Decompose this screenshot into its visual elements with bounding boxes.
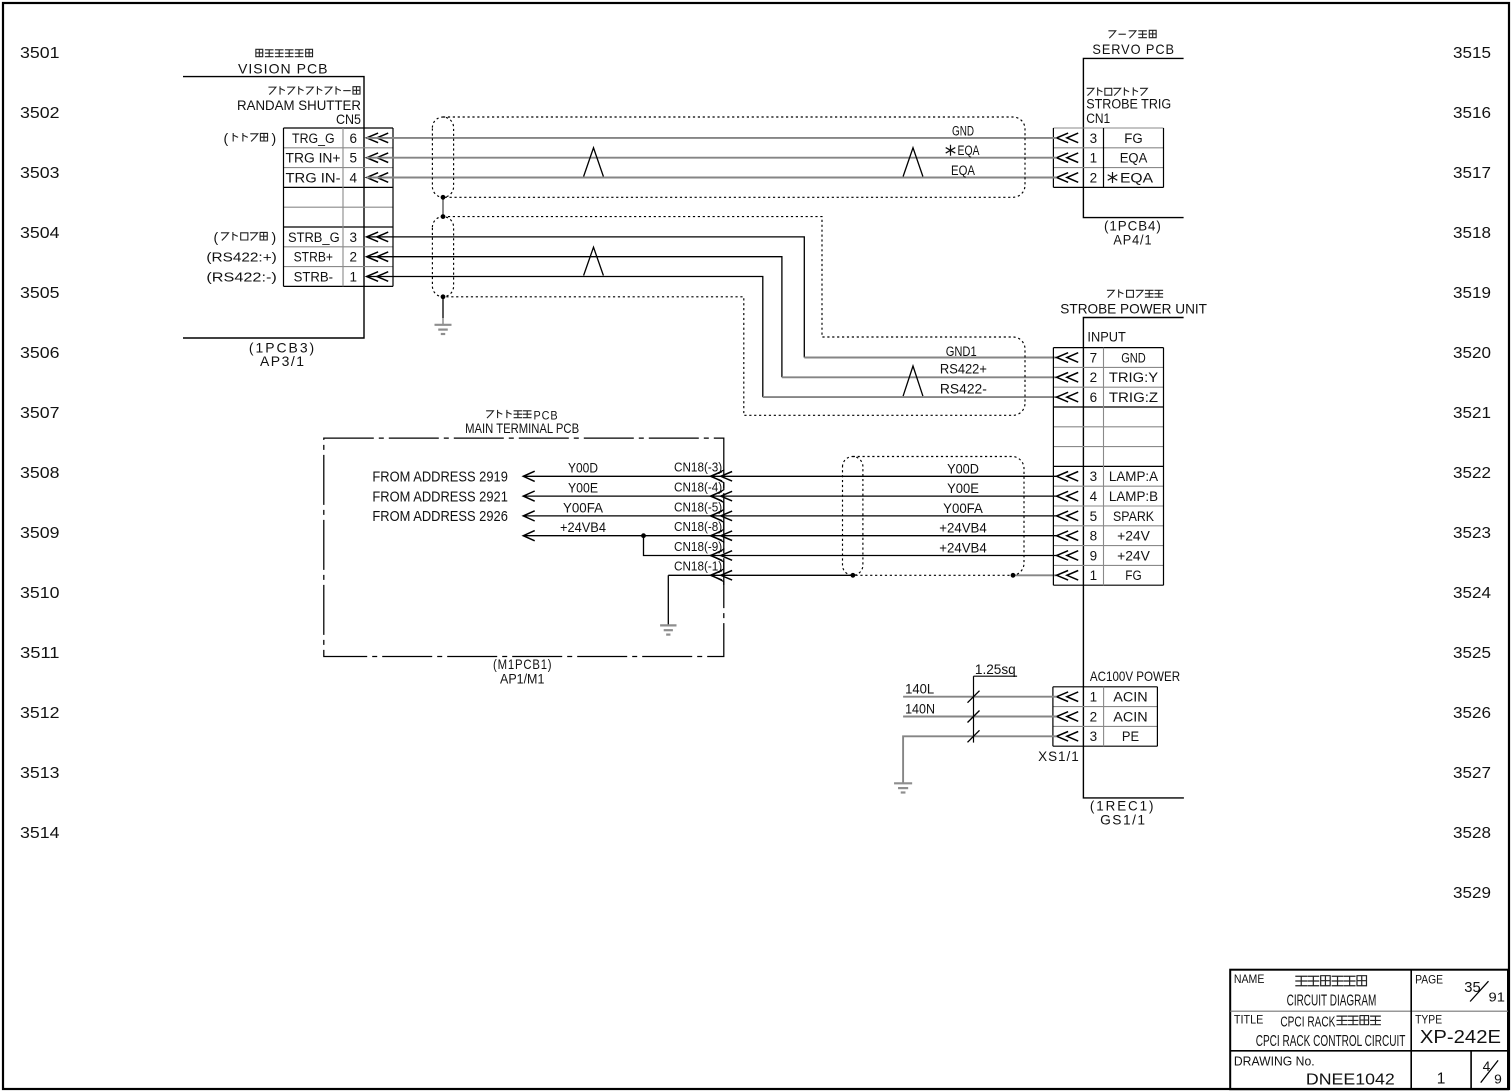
- title block label TYPE: [1415, 1013, 1442, 1027]
- svg-text:EQA: EQA: [951, 163, 975, 178]
- label (1REC1): [1090, 798, 1156, 814]
- svg-text:3509: 3509: [20, 525, 60, 542]
- label SERVO PCB: [1092, 41, 1175, 57]
- svg-text:1: 1: [349, 269, 357, 284]
- svg-text:3504: 3504: [20, 225, 60, 242]
- svg-text:3501: 3501: [20, 45, 60, 62]
- shield link wire between cable shields: [442, 197, 444, 216]
- svg-text:FG: FG: [1124, 131, 1142, 146]
- svg-text:SPARK: SPARK: [1113, 509, 1154, 524]
- svg-text:(RS422:+): (RS422:+): [206, 250, 276, 265]
- svg-text:3507: 3507: [20, 405, 60, 422]
- label CN5: [336, 111, 361, 127]
- svg-text:3522: 3522: [1453, 465, 1491, 482]
- sheet 4/9: [1481, 1059, 1502, 1087]
- title CPCI RACK CONTROL CIRCUIT: [1256, 1033, 1406, 1050]
- svg-text:+24V: +24V: [1117, 529, 1150, 544]
- label サーボ基板 (servo board): [1108, 30, 1156, 38]
- svg-text:Y00FA: Y00FA: [563, 500, 603, 515]
- svg-text:TYPE: TYPE: [1415, 1013, 1442, 1027]
- svg-text:STRB+: STRB+: [294, 250, 334, 265]
- svg-text:LAMP:A: LAMP:A: [1109, 469, 1158, 484]
- net label Y00FA (in cable): [943, 501, 983, 516]
- wire 140N (to XS1/1 pin2 ACIN): [903, 716, 1057, 718]
- svg-text:1: 1: [1090, 568, 1098, 583]
- label ストロボトリガ (strobe trigger): [1087, 87, 1148, 95]
- svg-text:STROBE POWER UNIT: STROBE POWER UNIT: [1060, 300, 1207, 316]
- svg-text:8: 8: [1090, 529, 1098, 544]
- wire STRB- / RS422- (CN5 pin1 to INPUT pin6 TRIG:Z): [367, 277, 1057, 398]
- svg-text:RS422-: RS422-: [940, 382, 987, 397]
- svg-text:CN18(-8): CN18(-8): [674, 519, 722, 534]
- svg-text:CIRCUIT DIAGRAM: CIRCUIT DIAGRAM: [1287, 993, 1377, 1010]
- svg-text:STRB-: STRB-: [294, 269, 333, 284]
- svg-text:PE: PE: [1122, 729, 1139, 744]
- title block label TITLE: [1234, 1013, 1264, 1027]
- pin label CN18(-1): [674, 559, 722, 574]
- svg-text:FROM ADDRESS 2921: FROM ADDRESS 2921: [372, 488, 508, 505]
- svg-text:3519: 3519: [1453, 285, 1491, 302]
- title block: [1230, 970, 1508, 1089]
- label (トリガ用) for trigger: [224, 130, 277, 146]
- label STROBE TRIG: [1086, 97, 1171, 112]
- svg-text:3524: 3524: [1453, 585, 1491, 602]
- svg-text:1.25sq: 1.25sq: [975, 662, 1016, 677]
- zone labels 3515-3529 (right margin): [1453, 45, 1491, 902]
- title block label PAGE: [1415, 973, 1443, 987]
- wire GND (CN5 pin6 TRG_G to CN1 pin3 FG): [367, 137, 1057, 139]
- label (1PCB3): [249, 340, 316, 356]
- net label +24VB4 (left): [560, 520, 606, 535]
- revision 1: [1437, 1071, 1446, 1088]
- svg-text:CN5: CN5: [336, 111, 361, 127]
- svg-text:3: 3: [349, 230, 357, 245]
- net label Y00D (left): [568, 461, 598, 476]
- drawing number DNEE1042: [1306, 1071, 1395, 1088]
- svg-text:+24VB4: +24VB4: [939, 541, 987, 556]
- pin label CN18(-8): [674, 519, 722, 534]
- shield drain wire to ground: [442, 297, 444, 325]
- wire FG ground stub: [667, 575, 669, 625]
- svg-text:GND1: GND1: [946, 344, 977, 359]
- label FROM ADDRESS 2921: [372, 488, 508, 505]
- svg-text:3529: 3529: [1453, 885, 1491, 902]
- svg-text:3515: 3515: [1453, 45, 1491, 62]
- shielded cable outline (trigger pair to servo): [432, 117, 1025, 197]
- ground (AC PE): [894, 783, 912, 792]
- label XS1/1: [1038, 748, 1080, 764]
- svg-text:(RS422:-): (RS422:-): [206, 269, 276, 284]
- svg-text:1: 1: [1090, 151, 1098, 166]
- connector INPUT (12-row table on STROBE POWER UNIT): [1053, 348, 1163, 586]
- svg-text:EQA: EQA: [1120, 151, 1148, 166]
- svg-text:DNEE1042: DNEE1042: [1306, 1071, 1395, 1088]
- junction dot +24VB4 branch: [641, 533, 646, 538]
- net label Y00D (in cable): [947, 461, 979, 476]
- svg-text:3521: 3521: [1453, 405, 1491, 422]
- wire STRB+ / RS422+ (CN5 pin2 to INPUT pin2 TRIG:Y): [367, 257, 1057, 378]
- svg-text:3527: 3527: [1453, 765, 1491, 782]
- svg-text:5: 5: [349, 151, 357, 166]
- svg-text:3510: 3510: [20, 585, 60, 602]
- junction dot (upper shield): [441, 195, 446, 200]
- twisted-pair symbol (EQA pair, right): [903, 148, 923, 177]
- pin label CN18(-4): [674, 480, 722, 495]
- title block label DRAWING No.: [1234, 1054, 1315, 1068]
- net label +24VB4 (in cable): [939, 541, 987, 556]
- svg-text:+24V: +24V: [1117, 548, 1150, 563]
- page number 35/91: [1464, 980, 1505, 1005]
- ground (cable shield): [435, 325, 452, 334]
- svg-text:3505: 3505: [20, 285, 60, 302]
- svg-text:9: 9: [1494, 1073, 1502, 1087]
- svg-text:3520: 3520: [1453, 345, 1491, 362]
- net label 140L: [905, 682, 935, 697]
- svg-text:2: 2: [1090, 170, 1098, 185]
- svg-text:Y00FA: Y00FA: [943, 501, 983, 516]
- net label GND: [952, 123, 974, 138]
- svg-text:FROM ADDRESS 2926: FROM ADDRESS 2926: [372, 508, 508, 525]
- label MAIN TERMINAL PCB: [465, 420, 579, 436]
- svg-text:CN18(-5): CN18(-5): [674, 499, 722, 514]
- svg-text:FG: FG: [1125, 568, 1141, 583]
- net label RS422+: [940, 362, 987, 377]
- net label Y00E (left): [568, 481, 598, 496]
- pin label CN18(-3): [674, 460, 722, 475]
- svg-text:TRG_G: TRG_G: [292, 131, 335, 146]
- svg-text:Y00D: Y00D: [568, 461, 598, 476]
- connector CN1 (3-pin table on SERVO PCB): [1053, 128, 1163, 187]
- zone labels 3501-3514 (left margin): [20, 45, 60, 842]
- label AP3/1: [260, 353, 306, 369]
- label GS1/1: [1100, 811, 1147, 827]
- svg-text:5: 5: [1090, 509, 1098, 524]
- svg-text:PAGE: PAGE: [1415, 973, 1443, 987]
- label VISION PCB: [238, 61, 329, 77]
- PCB outline AP4/1 SERVO PCB: [1083, 58, 1183, 217]
- wire Y00D (CN18(-3) to INPUT pin3 LAMP:A): [524, 475, 1057, 477]
- svg-text:1: 1: [1437, 1071, 1446, 1088]
- unit outline GS1/1 STROBE POWER UNIT: [1083, 318, 1184, 798]
- svg-text:RS422+: RS422+: [940, 362, 987, 377]
- svg-text:3512: 3512: [20, 705, 60, 722]
- wire PE (to XS1/1 pin3, grounded): [903, 736, 1057, 783]
- svg-text:3523: 3523: [1453, 525, 1491, 542]
- svg-text:+24VB4: +24VB4: [560, 520, 606, 535]
- label ストロボ電源 (strobe power): [1107, 289, 1163, 297]
- label (RS422:-): [206, 269, 276, 284]
- svg-text:3513: 3513: [20, 765, 60, 782]
- svg-text:GND: GND: [952, 123, 974, 138]
- PCB outline AP3/1 VISION PCB: [183, 77, 364, 338]
- svg-text:3514: 3514: [20, 825, 60, 842]
- svg-text:4: 4: [1090, 489, 1098, 504]
- svg-text:LAMP:B: LAMP:B: [1109, 489, 1158, 504]
- svg-text:Y00E: Y00E: [947, 481, 979, 496]
- junction dot (shield right, FG): [1011, 573, 1016, 578]
- twisted-pair symbol (RS422 pair): [903, 366, 923, 396]
- svg-text:3502: 3502: [20, 105, 60, 122]
- type XP-242E: [1420, 1027, 1501, 1047]
- svg-text:EQA: EQA: [1120, 170, 1153, 185]
- label FROM ADDRESS 2926: [372, 508, 508, 525]
- svg-text:3528: 3528: [1453, 825, 1491, 842]
- wire +24VB4 (CN18(-8) to INPUT pin8 +24V): [524, 535, 1057, 537]
- svg-text:CPCI RACK: CPCI RACK: [1280, 1014, 1335, 1031]
- shielded cable outline (lamp/power harness): [843, 457, 1025, 576]
- svg-text:TRIG:Z: TRIG:Z: [1109, 390, 1158, 405]
- svg-text:3: 3: [1090, 131, 1098, 146]
- twisted-pair symbol (STRB pair): [584, 247, 604, 275]
- svg-text:GND: GND: [1121, 350, 1146, 365]
- svg-text:AP3/1: AP3/1: [260, 353, 306, 369]
- title 電気回路線図 (circuit diagram): [1295, 976, 1366, 986]
- wire FG (CN18(-1) to shield / INPUT pin1 FG): [668, 574, 1056, 576]
- svg-text:AC100V POWER: AC100V POWER: [1090, 668, 1180, 684]
- net label EQA: [951, 163, 975, 178]
- svg-text:NAME: NAME: [1234, 972, 1265, 986]
- label CN1: [1086, 111, 1110, 126]
- svg-text:GS1/1: GS1/1: [1100, 811, 1147, 827]
- svg-text:(: (: [224, 130, 229, 146]
- svg-text:6: 6: [349, 131, 357, 146]
- svg-text:AP4/1: AP4/1: [1113, 232, 1152, 248]
- svg-text:3516: 3516: [1453, 105, 1491, 122]
- label (1PCB4): [1104, 218, 1162, 234]
- svg-text:9: 9: [1090, 548, 1098, 563]
- svg-text:ACIN: ACIN: [1113, 690, 1147, 705]
- svg-text:3517: 3517: [1453, 165, 1491, 182]
- net label GND1: [946, 344, 977, 359]
- net label RS422-: [940, 382, 987, 397]
- svg-text:): ): [272, 229, 277, 245]
- connector CN5 (6-pin table on VISION PCB): [284, 128, 394, 286]
- svg-text:2: 2: [1090, 370, 1098, 385]
- title CPCI RACK制御回路: [1280, 1014, 1380, 1031]
- svg-text:35: 35: [1464, 980, 1480, 996]
- label (RS422:+): [206, 250, 276, 265]
- wire Y00E (CN18(-4) to INPUT pin4 LAMP:B): [524, 495, 1057, 497]
- svg-text:3508: 3508: [20, 465, 60, 482]
- svg-text:3525: 3525: [1453, 645, 1491, 662]
- wire *EQA (CN5 pin5 TRG IN+ to CN1 pin1 EQA): [367, 157, 1057, 159]
- svg-text:3: 3: [1090, 729, 1098, 744]
- ground (M1PCB1 FG): [660, 625, 676, 634]
- svg-text:CN18(-4): CN18(-4): [674, 480, 722, 495]
- pin label CN18(-5): [674, 499, 722, 514]
- label AP1/M1: [500, 670, 545, 686]
- net label +24VB4 (in cable): [939, 521, 987, 536]
- svg-text:EQA: EQA: [958, 143, 980, 158]
- twisted-pair symbol (EQA pair, left): [584, 148, 604, 177]
- svg-text:3518: 3518: [1453, 225, 1491, 242]
- label AC100V POWER: [1090, 668, 1180, 684]
- svg-text:SERVO PCB: SERVO PCB: [1092, 41, 1175, 57]
- svg-text:VISION PCB: VISION PCB: [238, 61, 329, 77]
- svg-text:XS1/1: XS1/1: [1038, 748, 1080, 764]
- label 画像処理基板 (image processing board): [256, 49, 313, 56]
- svg-text:1: 1: [1090, 690, 1098, 705]
- svg-text:3: 3: [1090, 469, 1098, 484]
- svg-text:AP1/M1: AP1/M1: [500, 670, 545, 686]
- svg-text:ACIN: ACIN: [1113, 709, 1147, 724]
- label メイン中継PCB (main relay PCB): [486, 408, 558, 422]
- pin label CN18(-9): [674, 539, 722, 554]
- PCB outline AP1/M1 MAIN TERMINAL PCB (dash-dot box): [324, 438, 724, 656]
- svg-text:3503: 3503: [20, 165, 60, 182]
- label (M1PCB1): [493, 656, 552, 672]
- svg-text:2: 2: [349, 250, 357, 265]
- label STROBE POWER UNIT: [1060, 300, 1207, 316]
- arrowheads (to addresses): [523, 471, 534, 541]
- label AP4/1: [1113, 232, 1152, 248]
- svg-text:STROBE TRIG: STROBE TRIG: [1086, 97, 1171, 112]
- svg-text:140L: 140L: [905, 682, 935, 697]
- svg-text:XP-242E: XP-242E: [1420, 1027, 1501, 1047]
- junction dot (lower shield top): [441, 214, 446, 219]
- label RANDAM SHUTTER: [237, 97, 361, 113]
- title block label NAME: [1234, 972, 1265, 986]
- wire-size note 1.25sq with leader: [968, 662, 1018, 743]
- svg-text:CPCI RACK CONTROL CIRCUIT: CPCI RACK CONTROL CIRCUIT: [1256, 1033, 1406, 1050]
- net label Y00E (in cable): [947, 481, 979, 496]
- svg-text:CN18(-1): CN18(-1): [674, 559, 722, 574]
- wire +24VB4 branch (CN18(-9) to INPUT pin9 +24V): [644, 536, 1057, 556]
- junction dot (shield left, FG): [851, 573, 856, 578]
- svg-text:3506: 3506: [20, 345, 60, 362]
- svg-text:STRB_G: STRB_G: [288, 230, 340, 245]
- svg-text:INPUT: INPUT: [1087, 329, 1126, 345]
- svg-text:CN1: CN1: [1086, 111, 1110, 126]
- svg-text:6: 6: [1090, 390, 1098, 405]
- net label *EQA: [946, 143, 980, 158]
- connector XS1/1 (AC100V POWER 3-pin table): [1053, 687, 1158, 746]
- label ランダムシャッター用 (for random shutter): [268, 86, 360, 94]
- svg-text:(: (: [214, 229, 219, 245]
- svg-text:TITLE: TITLE: [1234, 1013, 1264, 1027]
- svg-text:3511: 3511: [20, 645, 60, 662]
- svg-text:3526: 3526: [1453, 705, 1491, 722]
- net label 140N: [905, 701, 935, 716]
- svg-text:140N: 140N: [905, 701, 935, 716]
- svg-text:TRG IN+: TRG IN+: [286, 151, 341, 166]
- wire STRB_G / GND1 (CN5 pin3 to INPUT pin7 GND): [367, 237, 1057, 358]
- svg-text:TRIG:Y: TRIG:Y: [1109, 370, 1158, 385]
- svg-text:CN18(-9): CN18(-9): [674, 539, 722, 554]
- wire EQA (CN5 pin4 TRG IN- to CN1 pin2 *EQA): [367, 177, 1057, 179]
- svg-text:): ): [272, 130, 277, 146]
- net label Y00FA (left): [563, 500, 603, 515]
- title CIRCUIT DIAGRAM: [1287, 993, 1377, 1010]
- label FROM ADDRESS 2919: [372, 469, 508, 486]
- label INPUT: [1087, 329, 1126, 345]
- label (ストロボ用) for strobe: [214, 229, 277, 245]
- svg-text:91: 91: [1489, 991, 1505, 1005]
- svg-text:4: 4: [349, 170, 357, 185]
- svg-text:FROM ADDRESS 2919: FROM ADDRESS 2919: [372, 469, 508, 486]
- svg-text:+24VB4: +24VB4: [939, 521, 987, 536]
- svg-text:TRG IN-: TRG IN-: [286, 170, 341, 185]
- wire Y00FA (CN18(-5) to INPUT pin5 SPARK): [524, 515, 1057, 517]
- connector chevrons CN18: [711, 470, 733, 586]
- svg-text:Y00E: Y00E: [568, 481, 598, 496]
- svg-text:CN18(-3): CN18(-3): [674, 460, 722, 475]
- svg-text:DRAWING No.: DRAWING No.: [1234, 1054, 1315, 1068]
- svg-text:MAIN TERMINAL PCB: MAIN TERMINAL PCB: [465, 420, 579, 436]
- shielded cable outline (STRB pair to strobe power input): [432, 217, 1025, 416]
- svg-text:2: 2: [1090, 709, 1098, 724]
- svg-text:7: 7: [1090, 350, 1098, 365]
- svg-text:Y00D: Y00D: [947, 461, 979, 476]
- wire 140L (to XS1/1 pin1 ACIN): [903, 696, 1057, 698]
- junction dot (lower shield bottom): [441, 294, 446, 299]
